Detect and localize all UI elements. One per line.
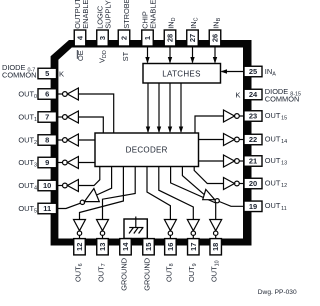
pin 16 box: [165, 239, 177, 255]
wire OUT14 row: [199, 139, 224, 141]
pin 18 box: [210, 239, 222, 255]
svg-text:STROBE: STROBE: [122, 0, 131, 29]
svg-text:K: K: [235, 90, 240, 99]
pin 2 box: [118, 30, 130, 46]
svg-text:12: 12: [75, 243, 84, 251]
pin 22 box: [244, 134, 262, 145]
wire latches to decoder 1: [146, 83, 150, 133]
pin 19 box: [244, 201, 262, 212]
svg-text:LATCHES: LATCHES: [162, 69, 200, 78]
pin 3 box: [97, 30, 109, 46]
wire OUT0 row to decoder top: [78, 94, 113, 133]
pin 26 box: [209, 30, 221, 46]
inverter OUT3: [57, 157, 79, 169]
wire pin27 to latches: [190, 46, 194, 64]
svg-text:COMMON: COMMON: [265, 95, 300, 104]
wire pin25 INA to latches: [221, 69, 245, 73]
pin 20 box: [244, 178, 262, 189]
pin 15 box: [143, 239, 155, 255]
svg-text:DECODER: DECODER: [126, 146, 168, 155]
svg-text:13: 13: [98, 243, 107, 251]
pin 23 box: [244, 111, 262, 122]
wire OUT3 row: [78, 162, 95, 164]
pin 24 box: [244, 89, 262, 100]
inverter OUT5 (diagonal): [57, 189, 100, 209]
svg-text:23: 23: [249, 112, 257, 121]
inverter OUT6 (pin12): [74, 220, 86, 239]
svg-text:ENABLE: ENABLE: [149, 0, 158, 29]
wire OUT13 row: [199, 160, 224, 162]
pin 7 box: [38, 112, 57, 123]
wire OUT1 row to decoder top: [78, 117, 103, 133]
wire latches to decoder 4: [179, 83, 183, 133]
svg-text:ENABLE: ENABLE: [81, 0, 90, 29]
pin 1 box: [142, 30, 154, 46]
svg-text:9: 9: [45, 158, 49, 167]
inverter OUT12: [224, 178, 245, 190]
wire decoder to inverter pin16: [147, 167, 170, 220]
inverter OUT11 (diagonal): [203, 189, 244, 206]
svg-text:GROUND: GROUND: [119, 258, 128, 291]
svg-text:COMMON: COMMON: [2, 71, 37, 80]
svg-text:19: 19: [249, 202, 257, 211]
label CHIP ENABLE (pin 1): [141, 0, 158, 29]
svg-text:10: 10: [43, 181, 51, 190]
svg-text:7: 7: [45, 113, 49, 122]
svg-text:21: 21: [249, 157, 257, 166]
label OUTPUT ENABLE (pin 4): [73, 0, 90, 29]
pin 6 box: [38, 89, 57, 100]
label DIODE 8-15 COMMON (pin 24): [265, 87, 301, 104]
wire decoder to OUT12 inverter: [194, 167, 223, 184]
pin 8 box: [38, 135, 57, 146]
pin 4 box: [74, 30, 86, 46]
pin 5 box: [38, 68, 57, 79]
inverter OUT13: [224, 155, 245, 167]
label OE (inside, pin 4): [76, 50, 85, 61]
pin 28 box: [164, 30, 176, 46]
wire OUT2 row: [78, 139, 95, 141]
svg-text:16: 16: [166, 243, 175, 251]
pin 13 box: [97, 239, 109, 255]
inverter OUT8 (pin16): [164, 220, 176, 239]
svg-text:24: 24: [249, 90, 258, 99]
inverter OUT10 (pin18): [210, 220, 222, 239]
pin 21 box: [244, 156, 262, 167]
svg-text:GROUND: GROUND: [142, 258, 151, 291]
wire decoder to OUT5 inverter: [97, 167, 112, 196]
pin 14 box: [120, 239, 132, 255]
svg-text:14: 14: [121, 242, 130, 251]
label DIODE 0-7 COMMON (pin 5): [2, 63, 37, 80]
inverter OUT4: [57, 180, 79, 192]
wire decoder to inverter pin13: [103, 167, 136, 220]
chip package body U1 (PLCC outline with chamfered corner): [51, 40, 252, 246]
svg-text:1: 1: [143, 36, 152, 40]
block DECODER: [95, 133, 199, 167]
wire decoder to OUT11 inverter: [182, 167, 204, 195]
svg-text:2: 2: [120, 36, 129, 40]
svg-text:22: 22: [249, 135, 257, 144]
pin 25 box: [244, 66, 262, 77]
wire pin28 to latches: [168, 46, 172, 64]
svg-text:Dwg. PP-030: Dwg. PP-030: [258, 289, 297, 296]
pin 11 box: [38, 203, 57, 214]
svg-text:28: 28: [166, 34, 175, 42]
pin 27 box: [187, 30, 199, 46]
svg-text:3: 3: [98, 36, 107, 40]
svg-text:K: K: [59, 69, 64, 78]
svg-text:27: 27: [188, 34, 197, 42]
pin 9 box: [38, 157, 57, 168]
pin 10 box: [38, 180, 57, 191]
svg-text:25: 25: [249, 67, 257, 76]
block LATCHES: [143, 64, 221, 84]
wire decoder to inverter pin17: [159, 167, 194, 220]
pin 17 box: [188, 239, 200, 255]
wire decoder to inverter pin18: [171, 167, 216, 220]
svg-text:15: 15: [144, 243, 153, 251]
wire decoder to OUT4 inverter: [78, 167, 99, 186]
ground block (pins 14,15): [124, 217, 147, 239]
inverter OUT2: [57, 134, 79, 146]
wire decoder to inverter pin12: [80, 167, 124, 220]
svg-text:6: 6: [45, 90, 49, 99]
svg-text:18: 18: [211, 243, 220, 251]
inverter OUT15: [224, 110, 245, 122]
svg-text:ST: ST: [121, 51, 130, 61]
pin 12 box: [74, 239, 86, 255]
inverter OUT9 (pin17): [187, 220, 199, 239]
svg-text:20: 20: [249, 179, 257, 188]
svg-text:5: 5: [45, 69, 49, 78]
svg-text:8: 8: [45, 136, 49, 145]
wire latches to decoder 3: [168, 83, 172, 133]
inverter OUT14: [224, 134, 245, 146]
svg-text:17: 17: [189, 243, 198, 251]
svg-text:SUPPLY: SUPPLY: [104, 0, 113, 29]
inverter OUT0: [57, 88, 79, 100]
inverter OUT1: [57, 111, 79, 123]
wire OUT15 row to decoder top: [195, 116, 224, 133]
svg-text:26: 26: [211, 34, 220, 42]
inverter OUT7 (pin13): [97, 220, 109, 239]
svg-text:11: 11: [43, 204, 51, 213]
wire pin26 to latches: [213, 46, 217, 64]
wire latches to decoder 2: [157, 83, 161, 133]
wire pin1 to latches: [145, 46, 149, 64]
label LOGIC SUPPLY (pin 3): [96, 0, 113, 29]
